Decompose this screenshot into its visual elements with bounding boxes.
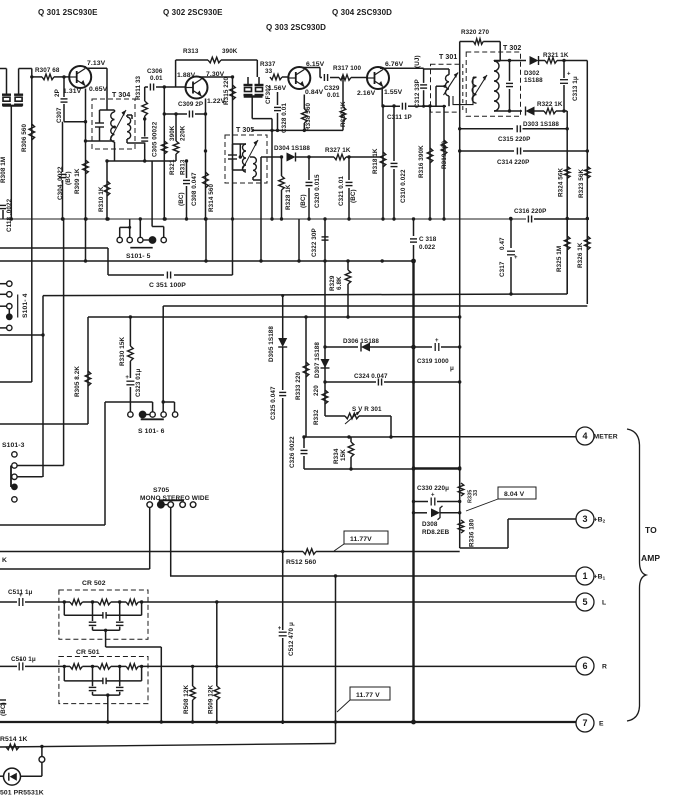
wire to T301 — [424, 105, 446, 107]
switch S705 contact 3 — [168, 502, 174, 508]
wire main right rail — [459, 113, 461, 548]
capacitor bottom left — [0, 700, 6, 704]
label C118 — [6, 198, 13, 232]
label S101-3 — [2, 442, 25, 449]
filter CR502 box — [59, 590, 148, 639]
label C311 — [387, 114, 412, 121]
switch S705 contact 4 — [180, 502, 186, 508]
wire — [348, 188, 350, 219]
junction — [458, 511, 461, 514]
resistor R323 — [585, 167, 591, 179]
junction — [106, 693, 109, 696]
wire input top — [0, 68, 7, 70]
label D307 — [314, 342, 321, 378]
label R310 — [98, 186, 105, 212]
wire D304 line — [261, 156, 283, 158]
label S101-5 — [126, 253, 151, 260]
wire — [106, 646, 162, 648]
junction — [61, 217, 64, 220]
junction — [509, 217, 512, 220]
svg-text:C329: C329 — [324, 85, 340, 92]
wire — [277, 113, 279, 130]
wire R329 — [347, 261, 349, 270]
transformer T305 arrow — [242, 140, 258, 170]
label R512 — [286, 559, 316, 566]
resistor R322 — [544, 108, 556, 114]
svg-text:2.16V: 2.16V — [357, 90, 376, 97]
wire — [10, 106, 12, 219]
label C319 — [417, 358, 449, 365]
wire junction under T304 — [107, 160, 176, 162]
svg-text:R308 1M: R308 1M — [0, 157, 7, 183]
resistor R328 — [279, 176, 285, 190]
label R329 value — [336, 276, 343, 290]
junction — [346, 259, 349, 262]
wire — [342, 121, 344, 130]
junction — [412, 500, 415, 503]
svg-text:T 305: T 305 — [236, 127, 254, 134]
wire — [17, 476, 42, 478]
svg-text:+B1: +B1 — [594, 574, 606, 581]
svg-text:R332: R332 — [313, 409, 320, 425]
junction — [302, 435, 305, 438]
svg-text:μ: μ — [450, 365, 454, 372]
junction — [509, 217, 512, 220]
wire — [460, 128, 513, 130]
svg-text:C311 1P: C311 1P — [387, 114, 412, 121]
svg-text:0.47: 0.47 — [499, 237, 506, 250]
junction — [270, 217, 273, 220]
svg-text:+: + — [567, 72, 571, 78]
svg-text:R334: R334 — [333, 448, 340, 464]
label 390K top — [222, 48, 238, 55]
label 33 — [265, 68, 273, 75]
label C314 — [497, 159, 529, 166]
wire — [82, 601, 97, 603]
resistor R316 — [427, 148, 433, 163]
junction — [412, 466, 415, 469]
transformer T305 primary cap — [228, 155, 237, 159]
label C313 — [572, 76, 579, 101]
wire — [308, 188, 310, 219]
wire — [63, 666, 65, 681]
svg-text:R336 180: R336 180 — [469, 518, 476, 547]
ceramic filter input a — [2, 95, 11, 105]
wire — [41, 747, 43, 757]
label T305 — [236, 127, 254, 134]
junction — [381, 104, 384, 107]
svg-text:(BC): (BC) — [300, 194, 307, 208]
capacitor C305 — [141, 138, 148, 141]
lamp PH501 — [4, 768, 21, 785]
wire — [42, 296, 44, 477]
transformer T305 box — [225, 135, 267, 183]
label C510 — [11, 656, 36, 663]
wire — [414, 346, 433, 348]
label S101-6 — [138, 428, 165, 435]
wire B2 rail — [0, 551, 303, 553]
svg-text:C325 0.047: C325 0.047 — [270, 386, 277, 420]
resistor R313 — [173, 141, 179, 154]
wire switch stub — [0, 305, 7, 307]
wire R321 chain — [163, 87, 165, 219]
wire — [494, 60, 500, 62]
junction — [204, 149, 207, 152]
wire — [281, 190, 283, 219]
wire — [523, 128, 568, 130]
junction — [84, 217, 87, 220]
wire — [460, 547, 508, 549]
svg-text:R306 560: R306 560 — [21, 123, 28, 152]
resistor R311 — [142, 101, 148, 116]
junction — [231, 217, 234, 220]
junction — [334, 720, 337, 723]
svg-text:D302: D302 — [524, 70, 540, 77]
wire — [302, 67, 320, 69]
junction — [143, 159, 146, 162]
svg-text:1.31V: 1.31V — [63, 88, 82, 95]
wire R334 — [350, 437, 352, 442]
wire — [509, 61, 511, 82]
capacitor C329 — [324, 74, 327, 81]
switch S101-3 bar — [10, 466, 12, 488]
capacitor C326 — [301, 450, 308, 453]
wire — [144, 116, 146, 137]
junction — [566, 217, 569, 220]
label C310 — [400, 169, 407, 203]
resistor R509 — [214, 686, 220, 700]
label R319 — [441, 140, 448, 169]
capacitor CR501 c3 — [116, 687, 124, 690]
label C329 value — [327, 92, 340, 99]
svg-text:C324 0.047: C324 0.047 — [354, 373, 388, 380]
wire — [221, 59, 257, 61]
resistor R337 — [270, 74, 282, 80]
svg-text:C510 1μ: C510 1μ — [11, 656, 36, 663]
junction — [347, 217, 350, 220]
wire R306 branch — [31, 69, 33, 383]
wire output rail right — [586, 61, 588, 305]
wire C320 — [308, 157, 310, 180]
label D302 — [524, 70, 540, 77]
wire rail 294 — [43, 294, 567, 296]
capacitor C306 — [150, 84, 153, 91]
wire — [460, 41, 474, 43]
junction — [304, 315, 307, 318]
svg-text:1.56V: 1.56V — [268, 85, 287, 92]
resistor R305 — [85, 371, 91, 386]
wire — [126, 115, 128, 117]
junction — [259, 259, 262, 262]
wire — [316, 551, 460, 553]
junction — [458, 500, 461, 503]
wire C308 — [186, 161, 188, 178]
label 6.76V — [385, 61, 404, 68]
wire — [441, 346, 460, 348]
wire — [535, 110, 545, 112]
ceramic filter input b — [14, 95, 23, 105]
switch S101-6 contact 3 — [150, 412, 155, 417]
resistor CR501 b — [98, 664, 111, 670]
wire — [119, 602, 121, 621]
junction — [91, 600, 94, 603]
svg-text:R325 1M: R325 1M — [556, 246, 563, 272]
junction — [231, 75, 234, 78]
wire R333 chain — [305, 317, 307, 437]
resistor R325 — [564, 236, 570, 250]
junction — [239, 155, 242, 158]
label R316 — [418, 145, 425, 178]
svg-text:T 301: T 301 — [439, 54, 457, 61]
label 6.15V — [306, 61, 325, 68]
wire C317 — [510, 219, 512, 248]
capacitor CR501 c2 — [103, 678, 106, 685]
wire — [99, 110, 101, 123]
resistor R318 — [380, 152, 386, 167]
label R322 1K — [537, 101, 563, 108]
wire — [423, 105, 430, 107]
terminal 3 — [576, 510, 606, 528]
label Q303 — [266, 23, 326, 32]
junction — [412, 380, 415, 383]
junction — [106, 720, 109, 723]
switch S705 contact 2 — [158, 501, 165, 508]
junction — [458, 380, 461, 383]
resistor R307 — [42, 74, 54, 80]
junction — [412, 217, 415, 220]
label C317 — [499, 261, 506, 277]
junction — [422, 105, 425, 108]
junction — [215, 665, 218, 668]
wire C326 — [303, 437, 305, 448]
svg-text:2P: 2P — [54, 89, 61, 97]
label AMP — [641, 553, 660, 563]
wire — [413, 219, 415, 236]
label MONO STEREO WIDE — [140, 495, 210, 502]
wire — [114, 144, 116, 161]
junction — [411, 345, 416, 350]
wire — [473, 76, 477, 78]
label R339 — [340, 101, 347, 127]
label C308 BC — [178, 192, 185, 206]
switch S101-6 contact 5 — [172, 412, 177, 417]
capacitor C511 — [19, 593, 23, 606]
wire bus 261 — [0, 260, 414, 262]
wire — [325, 415, 345, 417]
label CR502 — [82, 580, 106, 587]
wire x460 rail top — [459, 42, 461, 114]
svg-text:Q 303 2SC930D: Q 303 2SC930D — [266, 23, 326, 32]
transistor Q304 — [367, 67, 389, 89]
svg-text:R321 1K: R321 1K — [543, 52, 569, 59]
diode D302 — [530, 56, 539, 65]
junction — [458, 467, 461, 470]
switch S101-6 bar — [141, 418, 164, 420]
wire R338 bottom line — [252, 129, 343, 131]
label C304 value — [57, 166, 64, 200]
svg-text:S705: S705 — [153, 487, 169, 494]
svg-text:C 351 100P: C 351 100P — [149, 282, 186, 289]
wire — [192, 700, 194, 722]
capacitor C322 — [322, 237, 329, 240]
wire wiper link — [8, 309, 10, 315]
wire — [282, 347, 284, 390]
wire emitter rail ext — [85, 219, 87, 261]
label S705 — [153, 487, 169, 494]
capacitor CR502 c3 — [116, 622, 124, 625]
wire — [0, 334, 43, 336]
svg-text:T 302: T 302 — [503, 45, 521, 52]
junction — [204, 217, 207, 220]
wire C313 — [563, 61, 565, 79]
svg-text:C330 220μ: C330 220μ — [417, 485, 449, 492]
svg-text:RD8.2EB: RD8.2EB — [422, 529, 450, 536]
wire 6.76V — [380, 67, 424, 69]
wire C304 — [62, 122, 64, 172]
wire T305 return — [260, 180, 262, 261]
wire — [175, 154, 177, 161]
label C307 — [56, 107, 63, 123]
label D308 — [422, 521, 438, 528]
transformer T305 secondary coil — [253, 157, 256, 177]
junction — [281, 550, 284, 553]
junction — [140, 600, 143, 603]
junction — [442, 217, 445, 220]
svg-text:R318 1K: R318 1K — [372, 148, 379, 174]
junction — [458, 149, 461, 152]
junction — [62, 75, 65, 78]
resistor R317 — [339, 75, 351, 81]
wire — [174, 402, 176, 412]
transformer T304 primary cap — [95, 123, 104, 127]
label C309 2P — [178, 101, 203, 108]
wire — [252, 118, 272, 120]
wire — [256, 60, 258, 77]
label TO — [645, 525, 657, 535]
wire meter line — [391, 436, 576, 438]
capacitor C323 — [125, 375, 134, 385]
switch S101-4 bar — [17, 295, 19, 318]
label R306 560 — [21, 123, 28, 152]
svg-text:220: 220 — [313, 385, 320, 396]
resistor R320 — [474, 39, 484, 45]
svg-text:R514 1K: R514 1K — [0, 736, 28, 743]
svg-text:8.04 V: 8.04 V — [504, 491, 525, 498]
svg-text:R314 560: R314 560 — [208, 183, 215, 212]
label R326 — [577, 242, 584, 268]
wire — [63, 104, 65, 122]
wire — [250, 156, 253, 158]
resistor R306 — [29, 124, 35, 140]
wire long left rail — [282, 398, 284, 630]
label CF302 — [265, 84, 272, 104]
wire — [41, 762, 43, 776]
svg-text:R337: R337 — [260, 61, 276, 68]
wire — [104, 402, 106, 525]
wire heavy bus — [412, 260, 414, 724]
capacitor CR501 c1 — [89, 687, 97, 690]
svg-text:6.76V: 6.76V — [385, 61, 404, 68]
wire R310 — [106, 161, 108, 219]
junction — [215, 600, 218, 603]
switch S101-4 contact 2 — [7, 292, 12, 297]
label C317 047 — [499, 237, 506, 250]
wire rail 306 — [163, 305, 587, 307]
wire — [107, 248, 109, 275]
label R508 — [183, 684, 190, 714]
capacitor C510 — [19, 657, 23, 670]
svg-text:R321: R321 — [169, 159, 176, 175]
label C306 value — [150, 75, 163, 82]
svg-text:S V R 301: S V R 301 — [352, 406, 382, 413]
label C305 — [152, 121, 159, 157]
junction — [508, 109, 511, 112]
wire — [423, 90, 425, 106]
label C316 220P b — [0, 0, 1, 1]
wire — [507, 519, 509, 548]
junction — [270, 129, 273, 132]
capacitor C316 — [528, 216, 531, 223]
transformer T302 secondary coil — [494, 61, 499, 111]
svg-text:METER: METER — [594, 434, 618, 441]
junction — [323, 380, 326, 383]
label R309 — [74, 168, 81, 194]
label R311 33 — [135, 75, 142, 100]
resistor R332 — [322, 390, 328, 404]
svg-text:R329: R329 — [329, 275, 336, 291]
junction — [63, 600, 66, 603]
label R313 v — [180, 159, 187, 175]
svg-text:C316 220P: C316 220P — [514, 208, 546, 215]
wire — [138, 665, 576, 667]
resistor R321 1K — [545, 58, 557, 64]
wire C118 — [2, 210, 4, 219]
wire — [499, 42, 501, 62]
svg-text:S101- 5: S101- 5 — [126, 253, 151, 260]
wire — [239, 144, 241, 157]
svg-text:C314 220P: C314 220P — [497, 159, 529, 166]
label 1.22V — [207, 98, 226, 105]
label R332 — [313, 409, 320, 425]
wire — [18, 69, 20, 95]
ceramic filter CF302 b — [255, 85, 264, 95]
svg-text:1: 1 — [582, 571, 587, 581]
label R307 — [35, 67, 60, 74]
wire R305 chain — [87, 317, 89, 424]
wire — [152, 402, 154, 412]
wire — [508, 518, 576, 520]
wire — [119, 627, 121, 631]
svg-text:0.65V: 0.65V — [89, 86, 108, 93]
wire R330 chain — [129, 317, 131, 346]
diode D305 — [278, 338, 287, 347]
wire — [325, 156, 334, 158]
wire — [483, 41, 500, 43]
svg-text:R323 56K: R323 56K — [578, 168, 585, 198]
label Q304 — [332, 8, 392, 17]
junction — [458, 466, 461, 469]
label R313 top — [183, 48, 199, 55]
wire B1 rail — [170, 575, 576, 577]
junction — [41, 333, 44, 336]
label R337 — [260, 61, 276, 68]
wire R324 chain — [566, 111, 568, 294]
svg-text:0.01: 0.01 — [327, 92, 340, 99]
junction — [428, 104, 431, 107]
junction — [392, 104, 395, 107]
potentiometer SVR301 — [345, 411, 360, 424]
svg-text:R512 560: R512 560 — [286, 559, 316, 566]
